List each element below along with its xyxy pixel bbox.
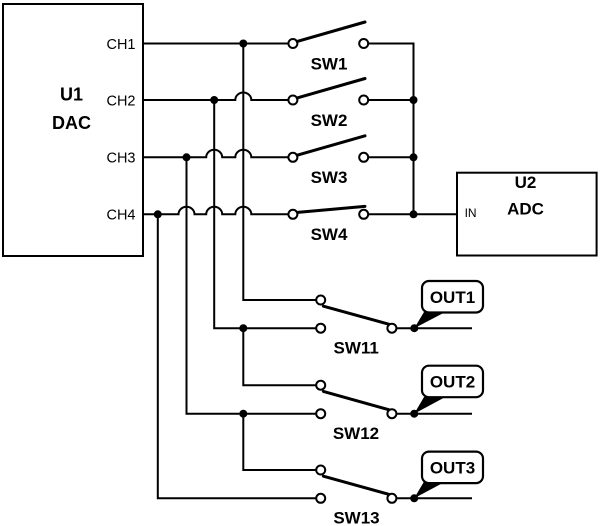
- junction node: CH4 branch tap: [154, 210, 162, 218]
- junction node: OUT3 tap: [410, 494, 418, 502]
- junction node: OUT2 tap: [410, 410, 418, 418]
- svg-text:SW1: SW1: [311, 54, 348, 73]
- IC U1 (DAC) box: [3, 4, 143, 256]
- svg-text:SW2: SW2: [311, 111, 348, 130]
- wire CH3: U1 pin to SW3 left contact (hops over CH2 and CH1 branches): [143, 150, 288, 157]
- net flag OUT3: [414, 452, 483, 499]
- net flag OUT1: [414, 281, 483, 328]
- switch SW4 (closed): [288, 206, 368, 218]
- svg-text:CH3: CH3: [106, 151, 135, 167]
- net flag OUT2: [414, 366, 483, 414]
- switch SW3: [288, 136, 368, 162]
- wire CH2: U1 pin to SW2 left contact (hop over CH1 branch): [143, 93, 288, 100]
- svg-text:ADC: ADC: [507, 200, 544, 219]
- wire CH1: U1 pin to SW1 left contact: [143, 43, 288, 45]
- switch SW12: [316, 381, 396, 419]
- wire: CH1 branch down to SW11 upper throw: [243, 44, 316, 301]
- svg-text:SW12: SW12: [333, 424, 379, 443]
- junction node: bus at SW2: [410, 96, 418, 104]
- svg-text:OUT2: OUT2: [430, 373, 475, 392]
- wire: chain down to SW13 upper throw: [243, 414, 316, 470]
- junction node: SW11 lower wire to SW12 chain: [239, 324, 247, 332]
- svg-text:CH4: CH4: [106, 208, 135, 224]
- wire: CH3 branch down to SW12 lower throw: [187, 157, 317, 413]
- svg-text:IN: IN: [465, 206, 477, 220]
- switch SW13: [316, 466, 396, 503]
- wire: SW13 common to OUT3: [396, 497, 472, 499]
- wire: SW2 output to ADC bus: [368, 99, 413, 101]
- svg-text:CH1: CH1: [106, 37, 135, 53]
- wire: SW4 output to ADC bus: [368, 213, 413, 215]
- wire: SW3 output to ADC bus: [368, 156, 413, 158]
- junction node: CH3 branch tap: [183, 153, 191, 161]
- svg-text:SW11: SW11: [334, 339, 379, 358]
- svg-text:CH2: CH2: [106, 93, 135, 109]
- svg-text:OUT3: OUT3: [430, 459, 475, 478]
- wire: SW1 output to ADC bus: [368, 43, 414, 45]
- switch SW2: [288, 79, 368, 105]
- switch SW1: [288, 22, 368, 48]
- wire: SW11 common to OUT1: [396, 327, 472, 329]
- svg-text:SW3: SW3: [311, 168, 348, 187]
- wire: CH4 branch down to SW13 lower throw: [158, 214, 316, 498]
- svg-text:SW13: SW13: [333, 509, 379, 526]
- junction node: CH2 branch tap: [210, 96, 218, 104]
- svg-text:DAC: DAC: [52, 113, 91, 133]
- svg-text:U2: U2: [515, 173, 537, 192]
- svg-text:SW4: SW4: [311, 225, 348, 244]
- IC U2 (ADC) box: [457, 173, 597, 256]
- wire CH4: U1 pin to SW4 left contact (hops over CH3, CH2, CH1 branches): [143, 207, 288, 214]
- junction node: SW12 lower wire to SW13 chain: [239, 410, 247, 418]
- wire: chain down to SW12 upper throw: [243, 328, 316, 385]
- junction node: bus at SW4: [410, 210, 418, 218]
- junction node: OUT1 tap: [410, 324, 418, 332]
- switch SW11: [316, 296, 396, 333]
- wire: ADC bus vertical: [413, 44, 415, 215]
- svg-text:U1: U1: [60, 85, 83, 105]
- junction node: bus at SW3: [410, 153, 418, 161]
- svg-text:OUT1: OUT1: [430, 288, 475, 307]
- wire: SW12 common to OUT2: [396, 413, 472, 415]
- wire: CH2 branch down to SW11 lower throw: [214, 100, 316, 328]
- wire: bus to U2 IN pin: [414, 213, 457, 215]
- junction node: CH1 branch tap: [239, 40, 247, 48]
